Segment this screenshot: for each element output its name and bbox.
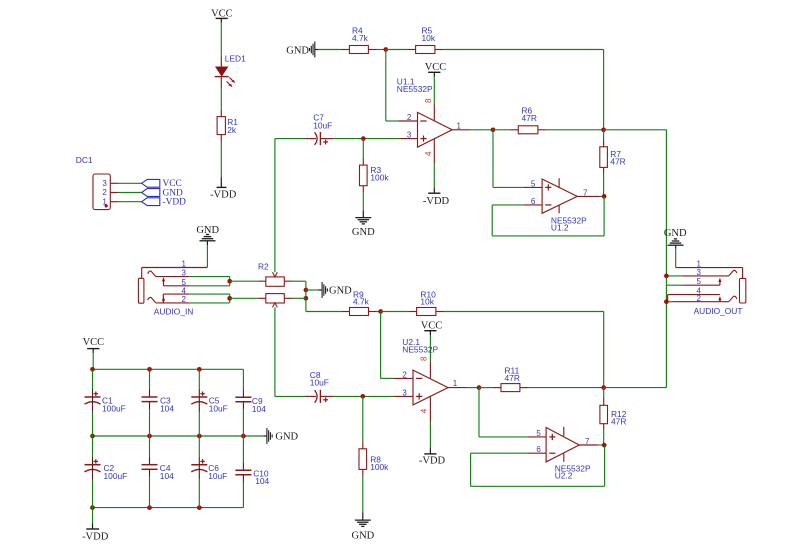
net flag -VDD xyxy=(142,198,187,208)
power flag -VDD (LED chain) xyxy=(210,178,237,201)
wire to R2 gang2 xyxy=(230,297,258,299)
wire top rail xyxy=(93,368,244,370)
op-amp U2.2 xyxy=(527,427,597,481)
svg-text:U1.2: U1.2 xyxy=(551,222,569,232)
svg-text:-VDD: -VDD xyxy=(82,531,109,542)
wire ground node to R9 xyxy=(306,298,341,311)
svg-text:NE5532P: NE5532P xyxy=(397,84,433,94)
wire gang1-gang2 ground link xyxy=(305,290,307,298)
connector AUDIO_IN jack body xyxy=(138,278,144,303)
svg-text:6: 6 xyxy=(536,445,541,454)
svg-text:GND: GND xyxy=(286,45,309,56)
wire GND to R4 xyxy=(318,49,341,51)
pin 3 stub DC1 xyxy=(110,182,118,184)
wire pin3 to junction xyxy=(189,276,229,278)
wire top rail to C9 xyxy=(242,369,244,389)
label AUDIO_OUT xyxy=(694,306,743,316)
wire GND to AUDIO_IN pin1 xyxy=(206,245,208,268)
op-amp U2.1 xyxy=(394,337,466,405)
wire R3 to GND xyxy=(362,191,364,210)
wire node to R8 xyxy=(362,396,364,441)
svg-text:2: 2 xyxy=(697,294,702,303)
op-amp U1.2 xyxy=(524,178,599,232)
svg-text:4.7k: 4.7k xyxy=(353,297,370,307)
pin 1 AUDIO_IN xyxy=(142,260,208,279)
wire DC1 pin2 to GND flag xyxy=(118,192,142,194)
wire DC1 pin1 to -VDD flag xyxy=(118,201,142,203)
wire R10 to output node xyxy=(444,312,604,388)
capacitor C7 xyxy=(305,113,333,146)
node top rail C5 xyxy=(197,367,202,372)
node U1.1 output xyxy=(491,127,496,132)
svg-text:100k: 100k xyxy=(370,462,389,472)
svg-text:VCC: VCC xyxy=(425,62,447,73)
label AUDIO_IN xyxy=(154,306,194,316)
wire U1.1 out to node xyxy=(471,129,493,131)
svg-text:4.7k: 4.7k xyxy=(352,33,369,43)
wire mid rail xyxy=(93,435,264,437)
resistor R9 xyxy=(341,290,376,316)
svg-text:6: 6 xyxy=(531,197,536,206)
wire U2.2 feedback loop xyxy=(471,445,605,486)
capacitor C5 xyxy=(191,369,227,436)
wire pin4 to -VDD xyxy=(433,163,435,188)
node R9-R10 xyxy=(378,309,383,314)
svg-text:R2: R2 xyxy=(258,261,269,271)
svg-text:2: 2 xyxy=(402,370,407,379)
wire top out to AUDIO_OUT bus xyxy=(604,129,667,131)
svg-text:3: 3 xyxy=(182,269,187,278)
wire to R2 gang1 xyxy=(230,280,258,282)
wire VCC to LED1 xyxy=(220,23,222,58)
wire bottom rail xyxy=(93,507,244,509)
node mid rail C9 xyxy=(241,434,246,439)
svg-text:47R: 47R xyxy=(610,157,625,167)
resistor R4 xyxy=(341,25,376,53)
svg-text:3: 3 xyxy=(402,388,407,397)
pin 4 U2.1 xyxy=(420,397,431,422)
wire R2 gang1 to ground node xyxy=(293,281,306,290)
svg-text:2: 2 xyxy=(182,295,187,304)
node U2.1 output xyxy=(477,385,482,390)
wire bus to pin3 xyxy=(666,275,683,277)
svg-text:7: 7 xyxy=(585,437,590,446)
svg-text:7: 7 xyxy=(583,188,588,197)
capacitor C3 xyxy=(142,369,175,436)
resistor R1 xyxy=(217,110,238,141)
wire R2 gang2 wiper to C8 xyxy=(275,307,305,396)
svg-text:AUDIO_OUT: AUDIO_OUT xyxy=(694,306,743,316)
net flag GND xyxy=(142,188,183,198)
svg-text:100uF: 100uF xyxy=(104,471,128,481)
wire node to U1.2 pin5 xyxy=(493,130,524,188)
pin 3 AUDIO_IN xyxy=(148,269,190,278)
wire R6 to out node xyxy=(546,129,604,131)
wire C7 to U1.1 pin3 xyxy=(333,138,398,140)
power flag GND (AUDIO_OUT) xyxy=(664,228,687,248)
node mid rail C1 xyxy=(90,434,95,439)
capacitor C2 xyxy=(85,436,128,508)
svg-text:GND: GND xyxy=(352,227,375,238)
svg-text:-VDD: -VDD xyxy=(423,196,450,207)
wire feedback to U2.1 pin2 xyxy=(381,312,394,379)
wire node to R3 xyxy=(362,139,364,158)
wire R4 to node xyxy=(377,49,386,51)
power flag GND (AUDIO_IN) xyxy=(196,225,219,245)
svg-text:1: 1 xyxy=(453,379,458,388)
resistor R5 xyxy=(407,25,443,53)
wire bottom out to AUDIO_OUT bus xyxy=(604,387,667,389)
svg-text:VCC: VCC xyxy=(421,320,443,331)
svg-text:5: 5 xyxy=(697,277,702,286)
svg-text:47R: 47R xyxy=(505,373,520,383)
pin 1 marker DC1 xyxy=(105,204,108,207)
wire pin5 to junction xyxy=(189,285,229,287)
svg-text:47R: 47R xyxy=(522,113,537,123)
svg-text:10uF: 10uF xyxy=(209,403,228,413)
capacitor C9 xyxy=(235,389,266,436)
wire U1.2 feedback loop xyxy=(492,196,604,236)
svg-text:GND: GND xyxy=(329,285,352,296)
wire node to R5 xyxy=(386,49,408,51)
wire R8 to GND xyxy=(362,475,364,512)
resistor R12 xyxy=(600,388,627,430)
svg-text:5: 5 xyxy=(531,179,536,188)
wire node to R6 xyxy=(493,129,510,131)
wire C8 to U2.1 pin3 xyxy=(333,395,394,397)
node left channel in xyxy=(227,279,232,284)
resistor R6 xyxy=(510,106,546,134)
svg-text:2: 2 xyxy=(102,188,107,197)
pin 3 AUDIO_OUT xyxy=(683,268,737,277)
node right channel in xyxy=(227,296,232,301)
connector DC1 xyxy=(76,155,111,210)
power flag VCC (U2.1) xyxy=(421,320,443,335)
node C8-R8 xyxy=(360,394,365,399)
node top out xyxy=(601,127,606,132)
wire GND to AUDIO_OUT pin1 xyxy=(675,249,677,268)
power flag VCC (cap bank) xyxy=(83,337,105,353)
pin 2 stub DC1 xyxy=(110,192,118,194)
wire R2 gang1 wiper to C7 xyxy=(275,139,305,273)
svg-text:5: 5 xyxy=(536,429,541,438)
svg-text:1: 1 xyxy=(182,260,187,269)
svg-text:104: 104 xyxy=(255,476,269,486)
wire R1 to -VDD xyxy=(220,141,222,178)
potentiometer R2 gang1 xyxy=(258,272,293,286)
node bottom rail C2 xyxy=(90,505,95,510)
resistor R7 xyxy=(600,130,626,174)
node U2.2 output xyxy=(602,443,607,448)
capacitor C8 xyxy=(305,370,333,403)
node bottom rail C6 xyxy=(197,505,202,510)
wire R7 to U1.2 out node xyxy=(603,174,605,197)
svg-text:47R: 47R xyxy=(611,417,626,427)
node top rail C3 xyxy=(147,367,152,372)
wire pin2 to junction xyxy=(189,302,229,304)
pin 1 stub DC1 xyxy=(110,201,118,203)
power flag VCC (U1.1) xyxy=(425,62,447,77)
wire node to R11 xyxy=(479,387,493,389)
node bottom out xyxy=(601,385,606,390)
capacitor C1 xyxy=(85,369,126,436)
svg-text:VCC: VCC xyxy=(83,337,105,348)
pin 4 AUDIO_OUT xyxy=(668,287,720,302)
svg-text:10k: 10k xyxy=(420,297,434,307)
power flag -VDD (cap bank) xyxy=(82,524,109,543)
svg-text:3: 3 xyxy=(407,131,412,140)
pin 5 AUDIO_OUT xyxy=(683,277,720,286)
wire VCC to pin8 xyxy=(433,77,435,105)
wire AUDIO_OUT bus vertical xyxy=(665,130,667,388)
svg-text:104: 104 xyxy=(252,404,266,414)
pin 1 AUDIO_OUT xyxy=(676,260,743,279)
svg-text:10uF: 10uF xyxy=(313,120,332,130)
svg-text:4: 4 xyxy=(420,408,429,413)
wire junction pins3-5 xyxy=(229,277,231,286)
power flag GND (cap bank) xyxy=(263,428,298,444)
svg-text:GND: GND xyxy=(352,530,375,541)
wire bus to pin2 xyxy=(666,301,673,303)
svg-text:3: 3 xyxy=(102,179,107,188)
svg-text:10k: 10k xyxy=(422,33,436,43)
wire U2.1 out to node xyxy=(466,387,479,389)
ground (R3) xyxy=(352,210,375,238)
node out left channel xyxy=(664,274,669,279)
node bottom rail C4 xyxy=(147,505,152,510)
svg-text:LED1: LED1 xyxy=(225,54,246,64)
node U1.2 output xyxy=(602,194,607,199)
wire bus to pin5 xyxy=(666,284,683,286)
svg-text:8: 8 xyxy=(424,98,433,103)
svg-text:NE5532P: NE5532P xyxy=(402,345,438,355)
svg-text:4: 4 xyxy=(182,286,187,295)
pin 4 AUDIO_IN xyxy=(163,286,189,303)
svg-text:1: 1 xyxy=(457,121,462,130)
svg-text:4: 4 xyxy=(424,151,433,156)
wire R9 to node xyxy=(377,311,381,313)
pin 2 AUDIO_OUT xyxy=(673,294,737,303)
svg-text:2: 2 xyxy=(407,113,412,122)
switch arrow AUDIO_IN gang1 xyxy=(162,277,165,286)
svg-text:AUDIO_IN: AUDIO_IN xyxy=(154,306,194,316)
svg-text:100k: 100k xyxy=(370,173,389,183)
switch arrow AUDIO_OUT gang2 xyxy=(718,296,721,302)
node out right channel xyxy=(664,299,669,304)
wire ground node to GND flag xyxy=(306,289,319,291)
power flag VCC (LED chain) xyxy=(211,8,233,22)
power flag -VDD (U2.1) xyxy=(419,448,446,466)
potentiometer R2 label xyxy=(258,261,269,271)
svg-text:10uF: 10uF xyxy=(208,471,227,481)
node mid rail C3 xyxy=(147,434,152,439)
pin 5 AUDIO_IN xyxy=(164,278,190,287)
led LED1 xyxy=(215,54,246,88)
net flag VCC xyxy=(142,179,182,189)
svg-text:DC1: DC1 xyxy=(76,155,93,165)
resistor R3 xyxy=(360,158,390,192)
svg-text:3: 3 xyxy=(697,268,702,277)
wire node to U2.2 pin5 xyxy=(479,388,527,437)
wire pin4 to junction xyxy=(189,293,229,295)
node pot gang1 ground xyxy=(304,288,309,293)
power flag GND (R2) xyxy=(319,282,353,298)
node mid rail C5 xyxy=(197,434,202,439)
resistor R8 xyxy=(359,442,389,476)
node C7-R3 xyxy=(361,136,366,141)
node R4-R5 xyxy=(383,47,388,52)
svg-text:100uF: 100uF xyxy=(102,403,126,413)
wire VCC to pin8 U2.1 xyxy=(429,335,431,362)
power flag GND (R4) xyxy=(286,42,318,58)
pin 4 U1.1 xyxy=(424,139,434,163)
wire DC1 pin3 to VCC flag xyxy=(118,182,142,184)
wire U2.2 out to node xyxy=(597,444,604,446)
svg-text:GND: GND xyxy=(664,228,687,239)
svg-text:10uF: 10uF xyxy=(310,378,329,388)
connector AUDIO_OUT jack body xyxy=(740,278,746,303)
power flag -VDD (U1.1) xyxy=(423,188,450,207)
wire R12 to U2.2 out node xyxy=(603,430,605,445)
switch arrow AUDIO_OUT gang1 xyxy=(718,278,721,285)
svg-text:8: 8 xyxy=(420,356,429,361)
wire R5 to output node xyxy=(443,50,603,130)
svg-text:104: 104 xyxy=(160,471,174,481)
wire feedback to U1.1 pin2 xyxy=(386,50,399,122)
pin 2 AUDIO_IN xyxy=(148,295,190,304)
capacitor C6 xyxy=(191,436,227,508)
wire R2 gang2 to ground node xyxy=(293,297,306,299)
node top rail C1 xyxy=(90,367,95,372)
resistor R11 xyxy=(493,365,528,391)
ground (R8) xyxy=(352,512,375,541)
capacitor C4 xyxy=(142,436,175,508)
capacitor C10 xyxy=(235,436,269,486)
wire C10 to bottom rail xyxy=(242,482,244,508)
node pot gang2 ground xyxy=(304,296,309,301)
svg-text:-VDD: -VDD xyxy=(210,190,237,201)
wire node to R10 xyxy=(381,311,409,313)
op-amp U1.1 xyxy=(397,77,471,148)
wire R11 to out node xyxy=(528,387,604,389)
switch arrow AUDIO_IN gang2 xyxy=(162,297,165,303)
svg-text:GND: GND xyxy=(275,431,298,442)
wire pin4 to -VDD U2.1 xyxy=(429,422,431,449)
pin 8 U1.1 xyxy=(424,98,434,121)
wire bottom rail to -VDD xyxy=(92,508,94,524)
wire U1.2 out to node xyxy=(599,195,604,197)
svg-text:104: 104 xyxy=(160,403,174,413)
potentiometer R2 gang2 xyxy=(258,294,293,308)
svg-text:2k: 2k xyxy=(227,125,237,135)
resistor R10 xyxy=(408,290,444,316)
svg-text:-VDD: -VDD xyxy=(163,198,187,208)
wire VCC to top rail xyxy=(92,353,94,369)
svg-text:U2.2: U2.2 xyxy=(555,471,573,481)
wire LED1 to R1 xyxy=(220,88,222,110)
pin 8 U2.1 xyxy=(420,356,431,378)
wire junction pins4-2 xyxy=(229,294,231,303)
svg-text:-VDD: -VDD xyxy=(419,455,446,466)
